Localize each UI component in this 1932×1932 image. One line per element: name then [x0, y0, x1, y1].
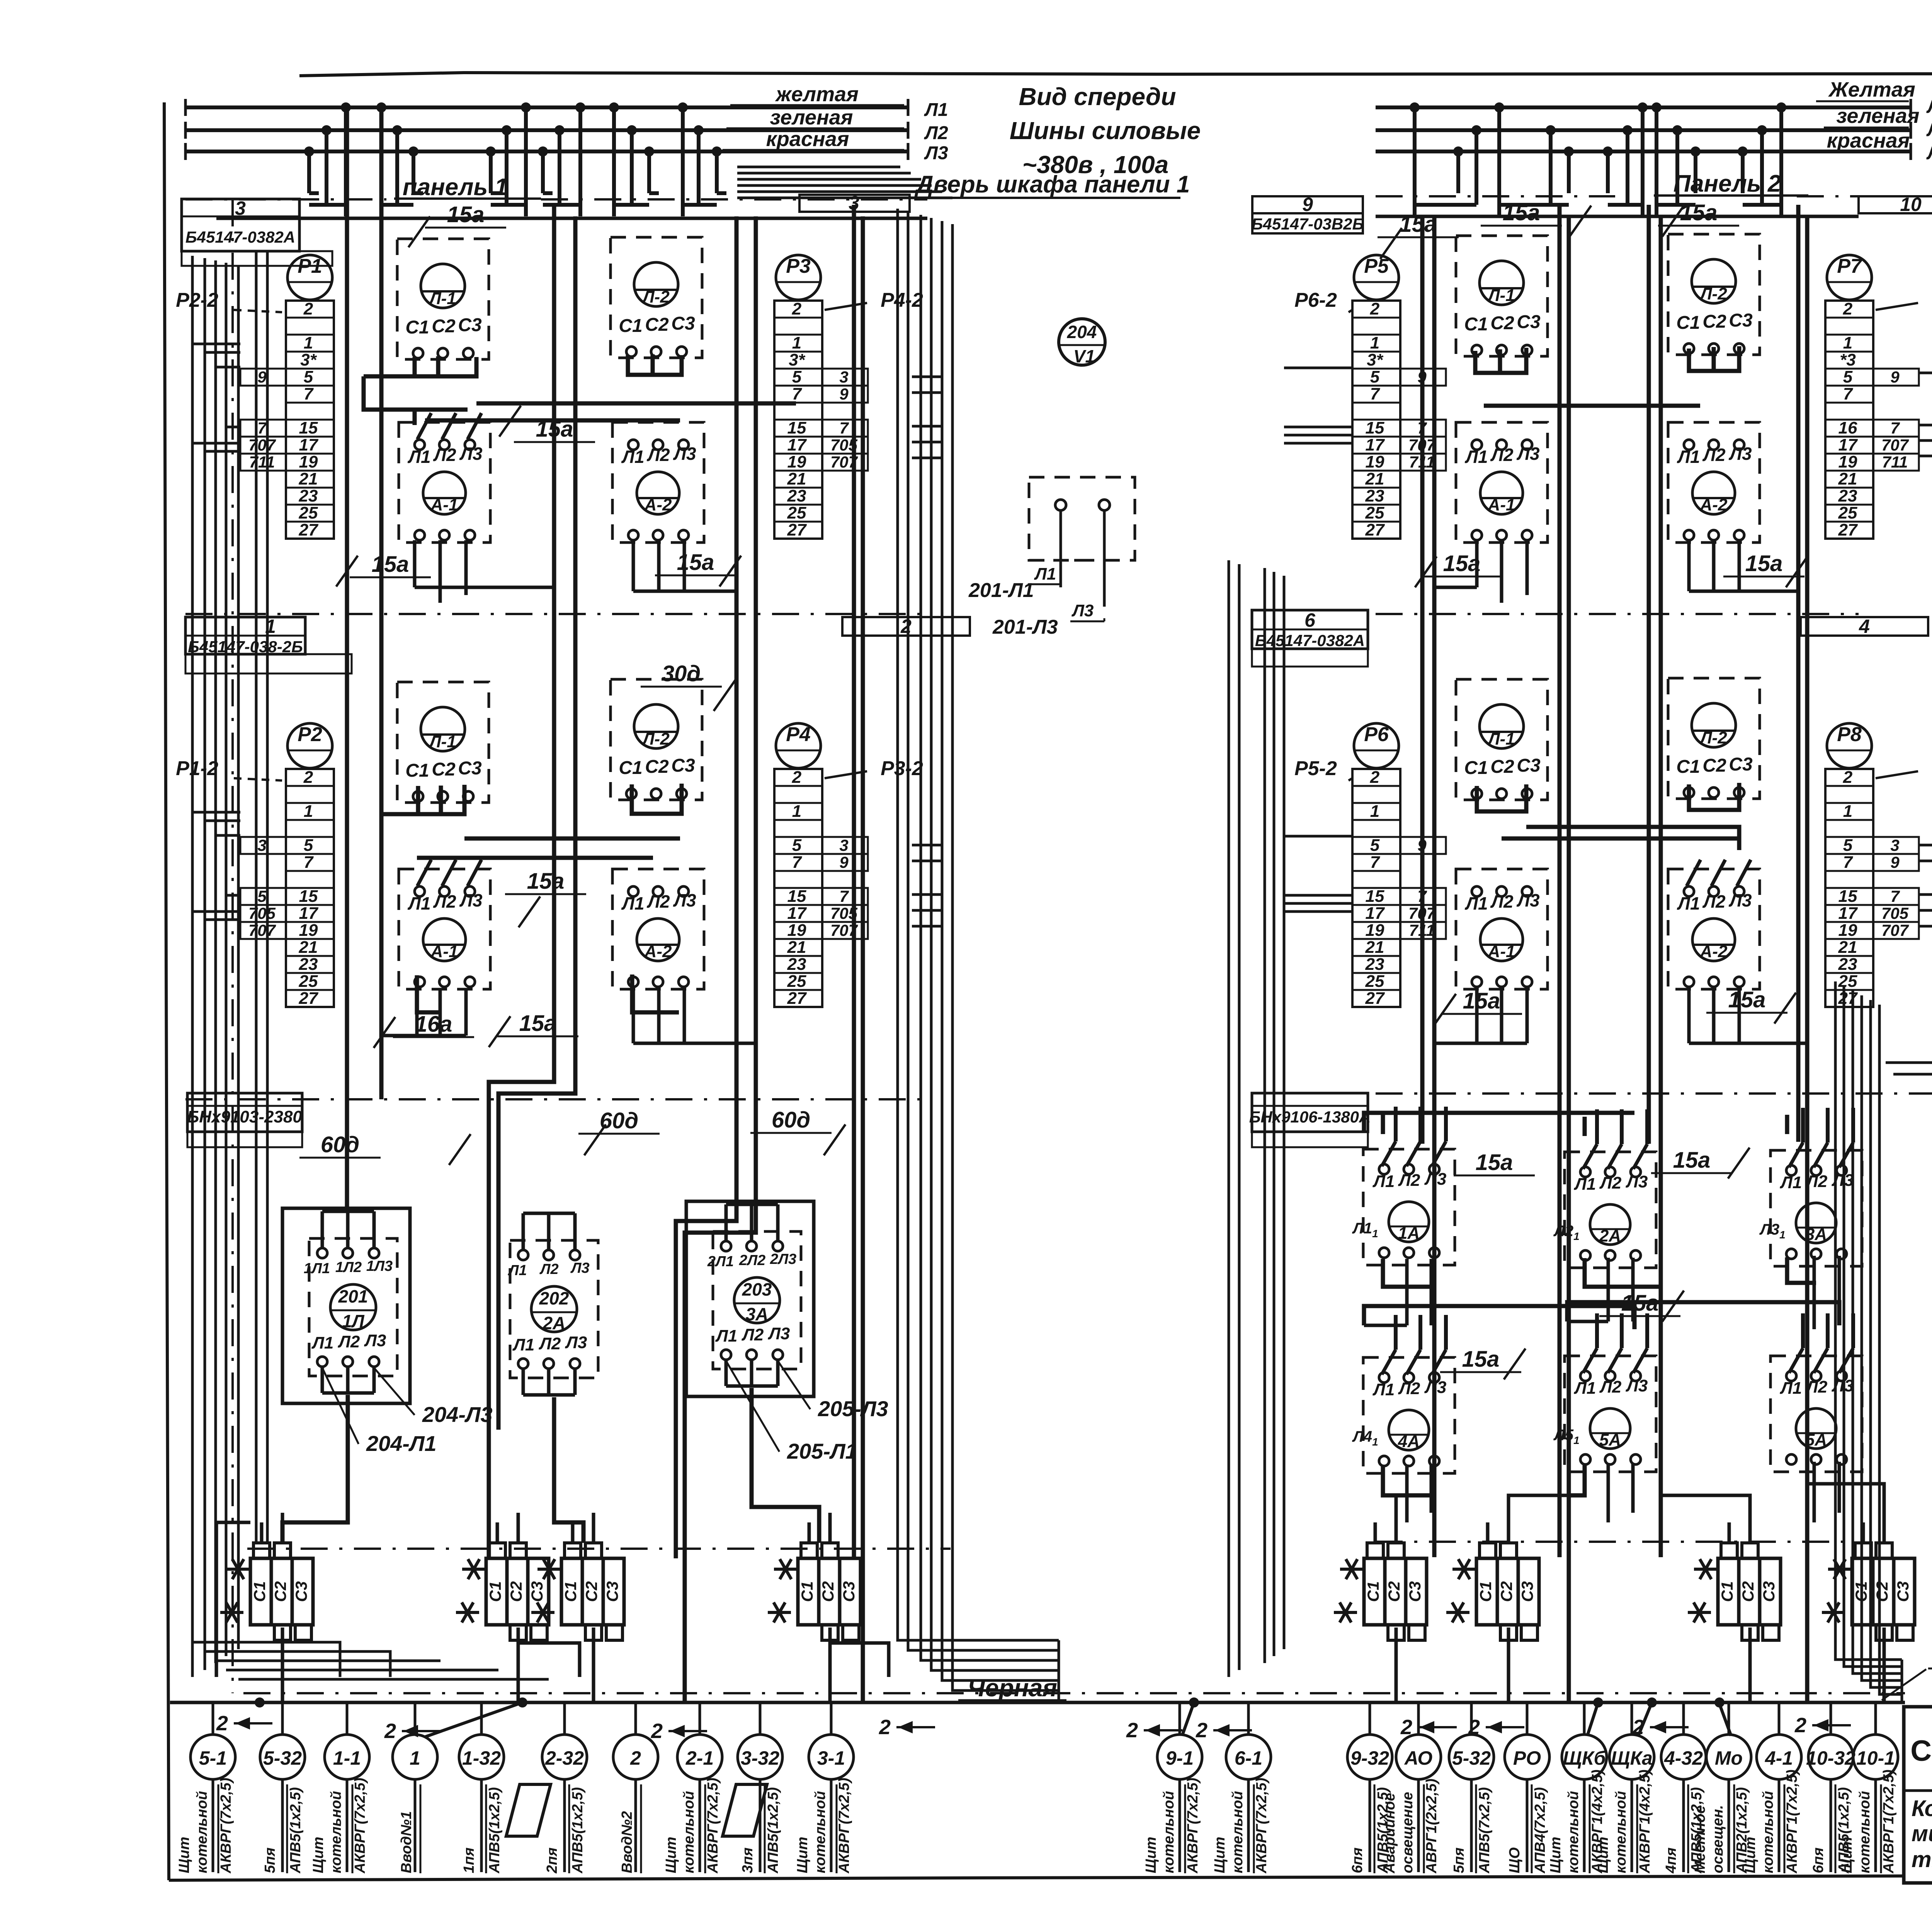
svg-text:С3: С3: [1760, 1581, 1778, 1602]
svg-text:6пя: 6пя: [1810, 1847, 1827, 1873]
svg-text:27: 27: [787, 989, 807, 1008]
wires bundle to Р1 side boxes: [192, 344, 240, 451]
svg-text:Л3: Л3: [565, 1333, 587, 1352]
svg-text:2: 2: [879, 1716, 891, 1739]
wire 5A link: [1567, 1302, 1839, 1325]
svg-text:Л-1: Л-1: [428, 732, 456, 751]
outgoing line node 6-1 6-1: [1212, 1702, 1271, 1874]
svg-text:Л1: Л1: [1780, 1173, 1802, 1192]
svg-text:5: 5: [1370, 367, 1380, 386]
door 1 wire bundle: [737, 167, 952, 198]
wire trunk R4a: [1796, 205, 1801, 1142]
note Вид спереди: [1010, 83, 1201, 179]
outgoing line node 9-1 9-1: [1143, 1702, 1202, 1874]
wire cellA2 C-mid: [439, 786, 443, 814]
svg-text:7: 7: [792, 384, 803, 403]
svg-text:Черная: Черная: [968, 1674, 1057, 1702]
svg-text:9: 9: [1890, 368, 1900, 386]
current label 15а: [1658, 200, 1739, 236]
current label 15а: [1706, 987, 1796, 1024]
starter А-1 panel1 row2 col1: [399, 860, 490, 989]
wire 203 bottom out: [752, 1388, 819, 1543]
svg-text:С2: С2: [582, 1581, 600, 1602]
wire left bundle bend2: [205, 1651, 390, 1677]
svg-text:23: 23: [1838, 955, 1857, 974]
node on bus x=672: [255, 1697, 265, 1708]
svg-text:17: 17: [1838, 435, 1858, 454]
svg-text:Местное: Местное: [1692, 1806, 1708, 1873]
svg-text:Л3: Л3: [1626, 1376, 1648, 1395]
svg-text:красная: красная: [766, 128, 849, 151]
svg-text:освещен.: освещен.: [1710, 1805, 1726, 1873]
svg-text:2: 2: [792, 299, 802, 318]
panel 2 interior top wall: [1376, 215, 1859, 218]
svg-text:201-Л1: 201-Л1: [968, 579, 1034, 602]
wire cellB C-bus: [628, 355, 682, 375]
svg-text:С1: С1: [1718, 1581, 1736, 1602]
svg-text:Панель 2: Панель 2: [1673, 170, 1781, 197]
svg-text:2: 2: [1126, 1719, 1138, 1742]
svg-text:16: 16: [1838, 418, 1857, 437]
svg-text:Л2: Л2: [1702, 891, 1726, 912]
svg-text:25: 25: [299, 972, 318, 991]
svg-text:С3: С3: [1518, 1581, 1536, 1602]
terminal strip Р5: [1294, 255, 1446, 539]
svg-text:Л2: Л2: [1398, 1171, 1420, 1190]
wire panel2 left bundle 0: [1228, 560, 1230, 1677]
mark 2 with arrow: [1632, 1716, 1689, 1739]
svg-text:23: 23: [299, 486, 318, 505]
svg-text:Л2: Л2: [1702, 445, 1726, 465]
connector stack С1-С3 #2: [456, 1543, 549, 1640]
svg-text:А-1: А-1: [430, 942, 458, 961]
bus Л2 left (зеленая): [185, 106, 948, 143]
svg-text:5: 5: [792, 367, 802, 386]
svg-text:21: 21: [1365, 938, 1384, 957]
svg-text:7: 7: [257, 419, 267, 437]
svg-text:201-Л3: 201-Л3: [992, 616, 1058, 638]
svg-text:Р6: Р6: [1364, 723, 1389, 746]
current label 15а: [499, 406, 595, 442]
mark 2 with arrow: [216, 1712, 272, 1735]
svg-text:711: 711: [249, 453, 275, 471]
wires Р8 side boxes right: [1919, 845, 1932, 926]
terminal strip Р3: [774, 255, 923, 539]
svg-text:АПВ4(7х2,5): АПВ4(7х2,5): [1532, 1787, 1548, 1874]
svg-text:3*: 3*: [300, 350, 317, 369]
svg-text:Л3: Л3: [1926, 143, 1932, 163]
svg-text:АПВ5(1х2,5): АПВ5(1х2,5): [486, 1787, 503, 1874]
starter А-1 panel2 row1 col1: [1456, 422, 1548, 543]
wire 201 bottom out: [282, 1395, 348, 1543]
chain line 1 left: [185, 613, 927, 615]
wire stair3: [830, 1643, 889, 1677]
svg-text:Р2: Р2: [298, 723, 322, 746]
wire slash feed 2Db: [1526, 827, 1739, 850]
svg-text:котельной: котельной: [681, 1791, 697, 1873]
wire row1 А-1 outputs: [415, 540, 554, 603]
current label 60д: [578, 1108, 660, 1155]
wire diag to ЩКа: [1638, 1702, 1652, 1736]
svg-text:Вид спереди: Вид спереди: [1019, 83, 1176, 111]
svg-text:Л-1: Л-1: [1487, 286, 1515, 305]
cable tag box 6: [1252, 609, 1368, 667]
svg-text:Л3: Л3: [673, 444, 696, 464]
svg-text:Б45147-0382А: Б45147-0382А: [185, 228, 295, 246]
svg-text:С2: С2: [645, 315, 669, 335]
current label 15а: [1454, 1150, 1535, 1175]
wire stack out bottom 4793: [1883, 1628, 1886, 1702]
svg-text:15а: 15а: [1476, 1150, 1513, 1175]
svg-text:С2: С2: [819, 1581, 837, 1602]
svg-text:15: 15: [299, 418, 318, 437]
svg-text:Б45147-03В2Б: Б45147-03В2Б: [1252, 215, 1364, 233]
panel 1 interior top wall: [216, 217, 927, 220]
svg-text:Л2: Л2: [539, 1334, 561, 1353]
svg-text:С1: С1: [405, 760, 429, 781]
svg-text:АКВРГ1(4х2,5): АКВРГ1(4х2,5): [1637, 1770, 1653, 1874]
label Шина нулевая: [1882, 1616, 1932, 1700]
wire 3A out: [1787, 1257, 1816, 1283]
svg-text:С2: С2: [1702, 311, 1726, 332]
svg-text:7: 7: [839, 887, 849, 905]
svg-text:Щит: Щит: [310, 1837, 327, 1873]
svg-text:15: 15: [1366, 887, 1384, 906]
outgoing line node 5-32 5-32: [1449, 1702, 1494, 1874]
svg-text:1: 1: [1370, 802, 1379, 821]
svg-text:С3: С3: [840, 1581, 858, 1602]
wire stair7: [1807, 1484, 1884, 1513]
magnetic starter 201/1Л 201: [282, 1208, 493, 1456]
cable tag box 3: [182, 197, 332, 266]
svg-text:АПВ5(1х2,5): АПВ5(1х2,5): [765, 1787, 781, 1874]
svg-text:204-Л3: 204-Л3: [422, 1402, 493, 1427]
wire stack feed top2 3821: [1507, 1513, 1510, 1543]
svg-text:С3: С3: [671, 313, 695, 334]
svg-text:Мо: Мо: [1715, 1747, 1743, 1769]
wire left bundle bend4: [226, 1669, 498, 1672]
wire panel2 row2 А-2 outputs: [1689, 987, 1807, 1043]
starter 3А 3А: [1759, 1108, 1862, 1266]
wire 5Аb down: [1814, 1462, 1839, 1522]
svg-text:4пя: 4пя: [1663, 1847, 1679, 1874]
current label 15а: [336, 552, 431, 587]
svg-text:Л2: Л2: [1490, 891, 1514, 912]
svg-text:2: 2: [303, 768, 313, 787]
svg-text:Л1: Л1: [1677, 893, 1700, 913]
wire rowR2 interlink: [1502, 837, 1739, 841]
wire diag to ЩКб: [1587, 1702, 1598, 1736]
svg-text:4А: 4А: [1398, 1432, 1420, 1451]
wire left-group right bundle 5: [952, 224, 1059, 1690]
wire 5A out: [1569, 1464, 1585, 1495]
wire right bundle 3: [1862, 995, 1902, 1680]
wire trunk R1a: [1420, 216, 1425, 1144]
svg-text:17: 17: [1366, 435, 1385, 454]
svg-text:С1: С1: [1676, 757, 1700, 777]
svg-text:2: 2: [900, 616, 912, 637]
svg-text:Р6-2: Р6-2: [1294, 289, 1337, 311]
panel 1 left boundary dash-dot vertical: [231, 199, 234, 1693]
svg-text:С2: С2: [1490, 313, 1514, 333]
starter А-2 panel1 row2 col2: [612, 869, 704, 989]
bus Л3 right (красная): [1376, 129, 1932, 163]
svg-text:А-2: А-2: [644, 942, 672, 961]
current label 15а: [1434, 988, 1522, 1025]
svg-text:Л1: Л1: [1464, 893, 1488, 913]
svg-text:21: 21: [1838, 938, 1857, 957]
wire cellD2 C-bus: [1689, 783, 1739, 810]
svg-text:АКВРГ(7х2,5): АКВРГ(7х2,5): [1185, 1778, 1201, 1874]
terminal strip Р4: [774, 723, 923, 1008]
svg-text:5-32: 5-32: [1452, 1747, 1491, 1769]
svg-text:7: 7: [1370, 384, 1381, 403]
wire cellA C-bus: [415, 357, 476, 376]
cable tag box 3 (door1): [799, 192, 910, 214]
svg-text:Л3: Л3: [924, 143, 948, 163]
svg-text:705: 705: [1881, 904, 1909, 922]
svg-text:Щит: Щит: [1742, 1837, 1759, 1873]
bus Л3 left (красная): [185, 128, 948, 163]
svg-text:котельной: котельной: [1230, 1791, 1246, 1873]
outgoing line node 1 1: [393, 1702, 437, 1873]
outgoing line node ЩКа ЩКа: [1595, 1702, 1654, 1874]
svg-text:С2: С2: [507, 1581, 525, 1602]
svg-text:15а: 15а: [1745, 551, 1783, 576]
svg-text:3: 3: [1890, 836, 1899, 854]
mark 2 with arrow: [1126, 1719, 1182, 1742]
starter А-1 panel2 row2 col1: [1456, 869, 1548, 989]
svg-text:Щит: Щит: [1143, 1837, 1159, 1873]
node on bus x=1352: [517, 1697, 527, 1708]
svg-text:А-1: А-1: [430, 495, 458, 514]
svg-text:АКВРГ(7х2,5): АКВРГ(7х2,5): [836, 1778, 852, 1874]
wire A1b downs: [417, 975, 440, 1012]
svg-text:А-2: А-2: [644, 495, 672, 514]
wire diag to Мо: [1719, 1704, 1731, 1736]
wire cellB2 C-bus: [632, 784, 682, 814]
svg-text:С1: С1: [405, 317, 429, 338]
svg-text:4-1: 4-1: [1765, 1747, 1793, 1769]
svg-text:7: 7: [1370, 853, 1381, 872]
wire cellA2 feed: [381, 812, 418, 816]
нулевая шина chain line: [243, 1692, 1905, 1694]
wire trunk R2a: [1558, 205, 1562, 1557]
svg-text:2Л1: 2Л1: [707, 1253, 734, 1270]
svg-text:котельной: котельной: [1613, 1791, 1629, 1873]
svg-text:23: 23: [299, 955, 318, 974]
svg-text:707: 707: [248, 921, 276, 939]
node on bus x=4275: [1647, 1697, 1657, 1708]
parallelogram mark Ввод №1: [506, 1784, 551, 1836]
outgoing line node 3-1 3-1: [794, 1702, 854, 1874]
svg-text:Р3-2: Р3-2: [881, 757, 923, 780]
outgoing line node 2 2: [613, 1702, 658, 1873]
svg-text:Л1: Л1: [1372, 1172, 1395, 1191]
wire box3 pair b: [266, 252, 269, 1542]
wire 5А down to stack: [1608, 1463, 1633, 1522]
svg-text:7: 7: [792, 853, 803, 872]
svg-text:Щит: Щит: [663, 1837, 679, 1873]
bus taps and drops right: [1410, 102, 1786, 216]
wire stack out bottom 2065: [828, 1628, 832, 1702]
svg-text:БНх9106-1380А: БНх9106-1380А: [1249, 1108, 1371, 1126]
svg-text:2: 2: [1843, 768, 1853, 787]
current label 15а: [1440, 1347, 1526, 1379]
wire panel2 left bundle 4: [1283, 576, 1286, 1649]
wire stack feed top 4446: [1728, 1522, 1731, 1543]
wire 1A feed: [1381, 1113, 1385, 1134]
svg-text:27: 27: [1365, 520, 1385, 539]
node on bus x=4136: [1593, 1697, 1603, 1708]
svg-text:1: 1: [792, 333, 801, 352]
current label 16а: [374, 1012, 474, 1048]
svg-text:1Л: 1Л: [342, 1311, 365, 1331]
wire right bundle 2: [1853, 991, 1902, 1673]
svg-text:ЩО: ЩО: [1507, 1847, 1523, 1873]
node on bus x=3090: [1189, 1697, 1199, 1708]
wire 1A-2A link: [1364, 1113, 1634, 1132]
svg-text:5пя: 5пя: [1451, 1847, 1467, 1873]
svg-text:27: 27: [787, 520, 807, 539]
svg-text:1: 1: [1843, 333, 1852, 352]
svg-text:Л1: Л1: [621, 447, 644, 467]
current label 15а: [1599, 1291, 1684, 1321]
wire cellA slash-feed: [410, 408, 468, 412]
svg-text:1: 1: [304, 802, 313, 821]
svg-text:Желтая: Желтая: [1828, 78, 1915, 101]
wire 3A feed: [1785, 1115, 1789, 1134]
svg-text:17: 17: [299, 904, 319, 923]
outgoing line node 9-32 9-32: [1347, 1702, 1392, 1874]
svg-text:15а: 15а: [527, 869, 565, 894]
svg-text:23: 23: [1838, 486, 1857, 505]
svg-text:Л2: Л2: [742, 1325, 764, 1344]
wire left-group right bundle 1: [908, 212, 1059, 1650]
svg-text:Р3: Р3: [786, 255, 811, 277]
wire stack feed top 3530: [1374, 1522, 1377, 1543]
wire diag 9-1: [1182, 1702, 1194, 1735]
current label 15а: [489, 1011, 578, 1047]
chain line 2 right: [1376, 1092, 1932, 1095]
svg-text:С3: С3: [1517, 312, 1541, 332]
mark 2 with arrow: [1196, 1719, 1252, 1742]
outgoing line node 5-1 5-1: [176, 1702, 235, 1874]
wires Р3 side boxes to bundle: [912, 377, 942, 458]
svg-text:15а: 15а: [1462, 1347, 1500, 1372]
svg-text:15: 15: [1838, 887, 1857, 906]
svg-text:2: 2: [303, 299, 313, 318]
svg-text:С2: С2: [1385, 1581, 1403, 1602]
svg-text:С2: С2: [1702, 755, 1726, 776]
svg-text:4-32: 4-32: [1664, 1747, 1703, 1769]
wire stack feed top2 3530: [1395, 1513, 1398, 1543]
svg-text:Л2: Л2: [1490, 445, 1514, 465]
svg-text:Л-2: Л-2: [1699, 728, 1727, 747]
svg-text:10: 10: [1900, 194, 1922, 215]
terminal strip Р7: [1825, 255, 1932, 539]
svg-text:15: 15: [1366, 418, 1384, 437]
svg-text:С3: С3: [1517, 755, 1541, 776]
svg-text:РО: РО: [1513, 1747, 1541, 1769]
svg-text:2: 2: [1843, 299, 1853, 318]
svg-text:Л1: Л1: [407, 893, 430, 913]
svg-text:1А: 1А: [1398, 1224, 1420, 1243]
bus Черная: [170, 1674, 1905, 1702]
wire cellD C-mid: [1712, 347, 1716, 371]
door label panel 1: [914, 171, 1190, 198]
wire right bundle 1: [1844, 986, 1902, 1667]
wire trunk L1b: [379, 107, 384, 1099]
svg-text:Л3: Л3: [1728, 890, 1752, 910]
svg-text:Аварийное: Аварийное: [1382, 1793, 1398, 1874]
svg-text:Л1: Л1: [1574, 1175, 1596, 1194]
svg-text:Р4-2: Р4-2: [881, 289, 923, 311]
current label 15а: [1723, 551, 1808, 587]
starter Л-1 panel2 row2 col1: [1456, 679, 1548, 800]
wire stack feed top 3821: [1486, 1522, 1490, 1543]
wire stack out bottom 648: [281, 1628, 284, 1702]
svg-text:Р1-2: Р1-2: [176, 757, 218, 780]
wire left bundle 1: [204, 258, 206, 1670]
wire trunk L4a: [852, 205, 856, 1557]
starter А-1 panel1 row1 col1: [399, 413, 490, 543]
svg-text:Р8: Р8: [1837, 723, 1862, 746]
svg-text:Л1: Л1: [1677, 447, 1700, 467]
wire cellD C-bus: [1689, 346, 1739, 371]
svg-text:С1: С1: [561, 1581, 580, 1602]
svg-text:707: 707: [1881, 436, 1909, 454]
starter 5А 5А: [1553, 1313, 1656, 1472]
current label 60д: [750, 1107, 845, 1155]
wire rowR1 interlink: [1484, 404, 1700, 408]
svg-text:19: 19: [787, 452, 806, 471]
svg-text:С2: С2: [1739, 1581, 1757, 1602]
starter Л-2 panel2 row1 col2: [1668, 234, 1760, 355]
svg-text:27: 27: [1838, 989, 1858, 1008]
svg-text:15а: 15а: [1673, 1148, 1711, 1173]
svg-text:2: 2: [630, 1747, 641, 1769]
svg-text:красная: красная: [1827, 129, 1910, 152]
svg-text:15а: 15а: [1728, 987, 1766, 1012]
svg-text:Р7: Р7: [1837, 255, 1862, 277]
svg-text:2Л2: 2Л2: [739, 1252, 765, 1269]
wire panel2 row2 А-1 outputs: [1434, 987, 1527, 1043]
wire stair5: [1509, 1495, 1569, 1513]
svg-text:19: 19: [299, 452, 318, 471]
wire left-group right bundle 3: [931, 218, 1059, 1670]
svg-text:Л3: Л3: [768, 1324, 790, 1343]
svg-text:Р5: Р5: [1364, 255, 1389, 277]
svg-text:27: 27: [1838, 520, 1858, 539]
wire stack out bottom 4446: [1748, 1628, 1752, 1702]
svg-text:5пя: 5пя: [262, 1847, 278, 1873]
wire 202 bottom out: [554, 1397, 583, 1543]
chain line 1 right: [1376, 613, 1859, 615]
wire 1А-4А trunk links: [1364, 1259, 1431, 1325]
current label 15а: [655, 550, 741, 587]
svg-text:7: 7: [839, 419, 849, 437]
cable tag box 4: [1801, 616, 1928, 637]
cable tag box 9: [1252, 194, 1364, 248]
svg-text:С1: С1: [798, 1581, 816, 1602]
svg-text:Л2: Л2: [1599, 1173, 1622, 1192]
current label 30д: [641, 661, 735, 711]
svg-text:15а: 15а: [519, 1011, 557, 1036]
starter 5А 5А right: [1770, 1313, 1862, 1472]
svg-text:желтая: желтая: [775, 83, 859, 106]
wire stair2: [518, 1643, 580, 1677]
